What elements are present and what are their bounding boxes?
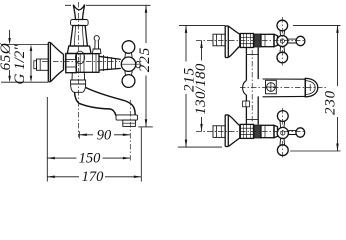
svg-text:90: 90 (97, 128, 112, 144)
svg-text:230: 230 (323, 90, 339, 115)
svg-text:225: 225 (137, 47, 153, 73)
svg-text:G 1/2″: G 1/2″ (12, 44, 28, 85)
svg-text:170: 170 (82, 169, 105, 185)
svg-text:130/180: 130/180 (193, 63, 209, 114)
svg-text:150: 150 (79, 151, 102, 167)
